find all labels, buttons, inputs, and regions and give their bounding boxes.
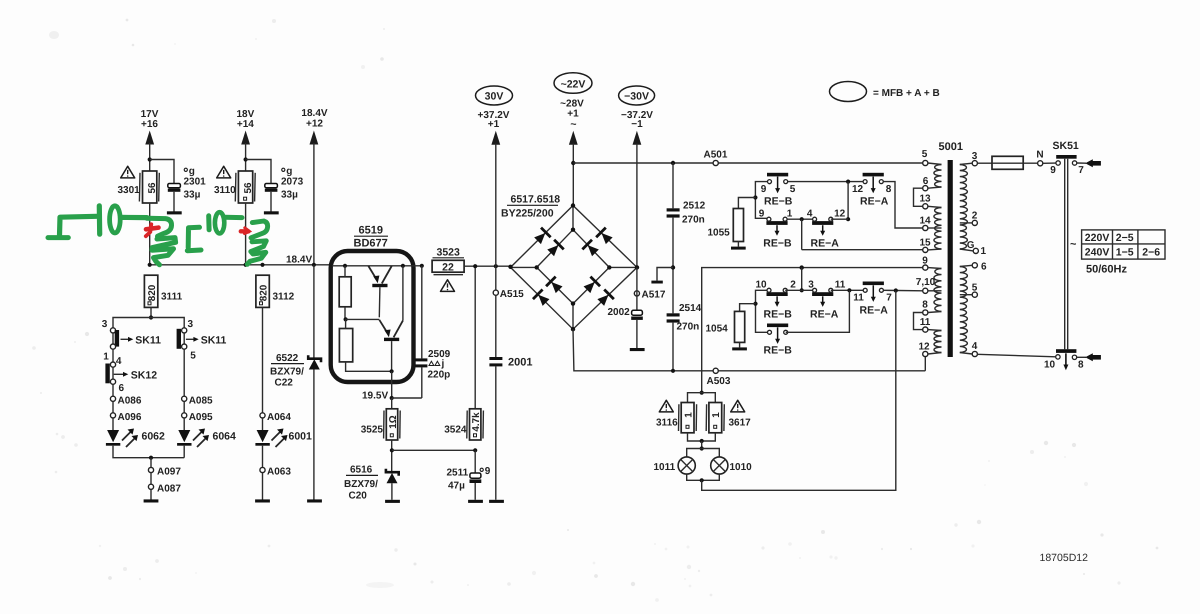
- link outer-inner top: [572, 206, 574, 230]
- plug arrow upper: [1085, 159, 1093, 167]
- legend MFB bubble: [830, 82, 867, 102]
- svg-text:C22: C22: [275, 378, 294, 389]
- arrow 18.4V: [310, 131, 319, 145]
- svg-text:1Ω: 1Ω: [388, 415, 399, 428]
- wire RE-A11 to junction: [831, 289, 865, 291]
- wire 3111 to fork: [150, 307, 152, 317]
- wire RE-B2 to RE-A3: [785, 289, 814, 291]
- wire resistor 3110 to bus: [245, 203, 247, 265]
- pin 3: [972, 161, 977, 166]
- svg-text:14: 14: [919, 216, 931, 227]
- green middle wire: [225, 215, 243, 220]
- vertical rail2 to lower contacts: [801, 268, 803, 291]
- green middle plate: [206, 216, 211, 230]
- node A086: [110, 396, 115, 401]
- svg-text:18705D12: 18705D12: [1040, 552, 1089, 564]
- ground under 2073: [264, 211, 279, 214]
- svg-text:9: 9: [485, 466, 491, 477]
- terminal 3 right: [182, 328, 187, 333]
- svg-text:11: 11: [920, 317, 931, 328]
- svg-text:2073: 2073: [281, 176, 304, 187]
- wire A515 down: [495, 266, 497, 290]
- ground under A063: [255, 499, 270, 502]
- junction merge: [149, 456, 153, 460]
- svg-text:12: 12: [918, 342, 930, 353]
- svg-text:2509: 2509: [428, 349, 451, 360]
- wire pin4 to contact 10: [977, 354, 1055, 357]
- capacitor 2001: [489, 357, 502, 360]
- node A097: [148, 467, 153, 472]
- resistor 3112 820: [256, 275, 269, 307]
- wire zener 6522 to ground: [313, 370, 315, 500]
- svg-text:3523: 3523: [437, 247, 461, 259]
- svg-text:−30V: −30V: [624, 91, 649, 103]
- wire A096 to LED 6062: [112, 418, 114, 430]
- green wire to node: [121, 215, 148, 220]
- svg-text:3: 3: [102, 319, 108, 330]
- svg-text:2511: 2511: [447, 468, 469, 479]
- svg-text:56: 56: [147, 182, 158, 193]
- svg-text:+1: +1: [488, 119, 500, 130]
- svg-text:A517: A517: [642, 289, 666, 300]
- transistor Q2: [401, 264, 405, 268]
- wire lamps return loop: [702, 291, 896, 491]
- primary winding 9-8: [934, 269, 942, 312]
- wire pin3 to fuse: [977, 162, 992, 164]
- svg-text:RE−A: RE−A: [860, 196, 889, 208]
- capacitor 2509 branch: [420, 264, 424, 268]
- wire fork left arm: [113, 318, 151, 328]
- resistor R2 internal: [339, 329, 352, 362]
- svg-text:A085: A085: [189, 395, 213, 406]
- scan speckles: [394, 548, 397, 551]
- link pin6-pin13: [914, 188, 923, 206]
- green right 3-shape: [247, 241, 266, 264]
- svg-text:~: ~: [1070, 239, 1077, 251]
- svg-text:N: N: [1036, 150, 1043, 161]
- svg-text:A087: A087: [157, 483, 181, 494]
- label og 2301 33u: [184, 168, 187, 171]
- svg-text:6522: 6522: [276, 353, 299, 364]
- svg-text:2: 2: [972, 211, 978, 222]
- ground under A087: [144, 499, 159, 502]
- arrow 18V: [241, 131, 250, 145]
- LED 6062: [107, 430, 119, 442]
- svg-text:240V: 240V: [1085, 247, 1110, 259]
- pin 8: [923, 310, 928, 315]
- switch SK12: [105, 364, 109, 384]
- capacitor 2073 electrolytic: [265, 184, 278, 188]
- svg-text:50/60Hz: 50/60Hz: [1086, 264, 1127, 276]
- diode D8 outer bottom-right: [596, 288, 615, 307]
- lamp 1010: [702, 449, 720, 458]
- switch SK11 right: [177, 329, 181, 349]
- wire 2512 to mid junction: [672, 218, 674, 314]
- svg-text:RE−B: RE−B: [764, 309, 793, 321]
- bridge inner diamond: [537, 230, 610, 304]
- svg-text:RE−A: RE−A: [810, 309, 839, 321]
- wire 6 to A086: [112, 384, 114, 396]
- svg-text:+16: +16: [141, 119, 158, 130]
- svg-text:A503: A503: [707, 376, 731, 387]
- ground under 2511: [468, 500, 483, 503]
- warning triangle 3110: [217, 166, 231, 178]
- svg-text:9: 9: [922, 256, 928, 267]
- node A064: [260, 413, 265, 418]
- resistor 3116: [681, 403, 694, 433]
- svg-text:820: 820: [147, 284, 158, 301]
- zener diode 6516: [386, 469, 399, 476]
- svg-text:4.7k: 4.7k: [471, 412, 482, 432]
- svg-text:4: 4: [807, 209, 813, 220]
- wire 3523 to bridge: [464, 265, 510, 267]
- svg-text:8: 8: [886, 184, 892, 195]
- svg-text:270n: 270n: [677, 322, 700, 333]
- node A096: [110, 413, 115, 418]
- svg-text:2512: 2512: [683, 201, 706, 212]
- svg-text:3617: 3617: [729, 418, 752, 429]
- svg-text:SK51: SK51: [1053, 140, 1079, 152]
- wire 3112 to A064: [262, 307, 264, 412]
- junction R1 top: [343, 264, 347, 268]
- wire 2512 line upper: [672, 163, 674, 208]
- svg-text:9: 9: [759, 209, 765, 220]
- svg-text:8: 8: [922, 300, 928, 311]
- wire LED 6064 to merge: [183, 446, 185, 458]
- svg-text:5001: 5001: [939, 141, 963, 153]
- pin 15: [923, 247, 928, 252]
- terminal 1: [110, 344, 115, 349]
- svg-text:6: 6: [119, 383, 125, 394]
- wire A095 to LED 6064: [183, 418, 185, 430]
- green sketch left base bar: [48, 235, 68, 240]
- wire mid junction to Q2 base: [346, 318, 380, 320]
- svg-text:RE−B: RE−B: [764, 345, 793, 357]
- diode D2 inner top-left: [546, 239, 565, 258]
- ground under 2001: [489, 500, 504, 503]
- svg-text:2001: 2001: [508, 357, 532, 369]
- rail2: [702, 268, 923, 393]
- junction dot cap 2301 branch: [148, 157, 152, 161]
- SK51 contact 10: [1056, 355, 1060, 359]
- wire to capacitor 2073: [246, 160, 271, 184]
- wire R2 to emitter rail: [346, 362, 392, 371]
- green hook right: [147, 218, 172, 236]
- svg-text:A515: A515: [500, 289, 524, 300]
- svg-text:A063: A063: [267, 467, 291, 478]
- pin 11: [923, 327, 928, 332]
- svg-text:RE−A: RE−A: [860, 304, 889, 316]
- link outer-inner bottom: [572, 304, 574, 330]
- pin 14: [923, 225, 928, 230]
- svg-text:12: 12: [852, 184, 864, 195]
- vertical link mid: [847, 182, 849, 220]
- svg-text:1: 1: [787, 209, 793, 220]
- wire A087 to ground: [150, 489, 152, 499]
- pin 4 secondary: [972, 351, 977, 356]
- wire merge down: [150, 458, 152, 468]
- terminal 5: [182, 344, 187, 349]
- svg-text:18.4V: 18.4V: [301, 108, 327, 119]
- wire fork right arm: [151, 318, 184, 328]
- svg-text:3112: 3112: [273, 292, 295, 303]
- terminal 3 left: [110, 328, 115, 333]
- wire RE-B1 to RE-A4: [787, 218, 815, 220]
- wire junction to 3524 bottom: [392, 449, 475, 451]
- resistor 3110: [238, 171, 252, 203]
- resistor 3111 820: [144, 275, 157, 307]
- svg-text:270n: 270n: [682, 215, 705, 226]
- resistor 3301: [143, 171, 157, 203]
- svg-text:BD677: BD677: [354, 238, 388, 250]
- red mark left: [146, 228, 159, 230]
- resistor R1 internal: [339, 277, 351, 307]
- svg-text:A086: A086: [118, 395, 142, 406]
- svg-text:A064: A064: [267, 412, 291, 423]
- wire RE-A8 to pin14: [883, 182, 922, 228]
- svg-text:11: 11: [853, 293, 864, 304]
- wire A086 to A096: [112, 401, 114, 412]
- green right hook: [251, 221, 268, 238]
- svg-text:6: 6: [981, 261, 987, 272]
- svg-text:7,10: 7,10: [916, 277, 936, 288]
- svg-text:2−5: 2−5: [1116, 232, 1134, 244]
- svg-text:3: 3: [972, 151, 978, 162]
- SK51 actuator: [1064, 159, 1066, 350]
- svg-text:SK11: SK11: [201, 334, 227, 346]
- svg-text:30V: 30V: [485, 91, 504, 103]
- svg-text:1: 1: [684, 412, 695, 418]
- svg-text:33µ: 33µ: [281, 190, 298, 201]
- node A087: [148, 484, 153, 489]
- pin 6 secondary: [972, 263, 977, 268]
- terminal 6: [110, 379, 115, 384]
- svg-text:19.5V: 19.5V: [362, 391, 388, 402]
- svg-text:1011: 1011: [654, 462, 676, 473]
- svg-text:~: ~: [570, 119, 576, 131]
- bubble ~22V: [554, 73, 592, 94]
- warning triangle under 3523: [441, 280, 455, 292]
- green oval: [110, 206, 121, 233]
- SK51 contact 8: [1072, 355, 1076, 359]
- svg-text:+12: +12: [306, 119, 323, 130]
- svg-text:9: 9: [1050, 165, 1056, 176]
- svg-text:3116: 3116: [656, 418, 678, 429]
- relay contact RE-A lower row1: [812, 288, 833, 307]
- svg-text:56: 56: [243, 182, 254, 193]
- rail1 mains: [573, 162, 922, 164]
- svg-text:SK12: SK12: [131, 369, 157, 381]
- svg-text:2: 2: [790, 280, 796, 291]
- pin 6: [923, 186, 928, 191]
- svg-text:5: 5: [790, 184, 796, 195]
- primary winding 5-6: [934, 165, 942, 188]
- pin 12: [923, 351, 928, 356]
- svg-text:2301: 2301: [184, 176, 207, 187]
- junction rail1 / 2512 line: [671, 161, 675, 165]
- resistor 1055: [738, 198, 755, 209]
- svg-text:1−5: 1−5: [1116, 247, 1134, 259]
- wire A064 to LED 6001: [262, 418, 264, 430]
- link outer-inner left: [511, 266, 537, 268]
- diode D5 inner bottom-left: [545, 276, 564, 295]
- wire bridge bottom to A503 rail: [573, 329, 925, 371]
- relay contact RE-A upper: [863, 173, 884, 193]
- wire N to SK51: [1043, 162, 1056, 164]
- svg-text:22: 22: [442, 261, 454, 273]
- svg-text:5: 5: [972, 283, 978, 294]
- SK51 contact 9: [1056, 161, 1060, 165]
- module outline 6519: [331, 251, 414, 382]
- wire resistor 3301 to bus: [149, 203, 151, 265]
- label og 2073 33u: [282, 168, 285, 171]
- resistor 3617: [709, 403, 722, 433]
- capacitor 2301 electrolytic: [168, 184, 181, 188]
- svg-text:RE−B: RE−B: [763, 238, 792, 250]
- arrow -37.2V: [633, 131, 642, 145]
- wire A085 to A095: [183, 401, 185, 412]
- wire RE-B lower-left loop: [756, 288, 770, 333]
- wire bus to zener 6522: [313, 265, 315, 358]
- svg-text:6: 6: [923, 176, 929, 187]
- svg-text:C20: C20: [349, 491, 368, 502]
- svg-text:1: 1: [981, 246, 987, 257]
- primary winding 13-15: [934, 208, 942, 250]
- pin 5 secondary: [972, 292, 977, 297]
- junction dot cap 2073 branch: [244, 157, 248, 161]
- zener diode 6522: [308, 355, 321, 362]
- node A095: [182, 413, 187, 418]
- arrow +37.2V: [491, 131, 500, 145]
- diode D3 outer top-right: [595, 227, 614, 246]
- svg-text:3111: 3111: [161, 292, 183, 303]
- svg-text:12: 12: [834, 209, 846, 220]
- bubble -30V: [619, 86, 655, 105]
- svg-text:33µ: 33µ: [184, 190, 201, 201]
- diode D4 inner top-right: [581, 239, 600, 258]
- diode D1 outer top-left: [533, 227, 552, 246]
- svg-text:6516: 6516: [350, 465, 373, 476]
- svg-text:A501: A501: [704, 150, 728, 161]
- svg-text:BY225/200: BY225/200: [501, 208, 554, 220]
- terminal N: [1038, 161, 1043, 166]
- junction dots on bus: [148, 263, 152, 267]
- svg-text:6519: 6519: [359, 225, 383, 237]
- warning triangle 3301: [121, 166, 135, 178]
- wire 18.4V arrow to bus: [313, 143, 315, 265]
- relay contact RE-B lower row2: [767, 324, 788, 344]
- svg-text:−1: −1: [631, 119, 643, 130]
- svg-text:18.4V: 18.4V: [286, 255, 312, 266]
- stub to mini ground: [657, 268, 673, 281]
- pin 9: [923, 265, 928, 270]
- wire R1 to mid junction: [344, 307, 346, 320]
- ground under 6522: [307, 499, 322, 502]
- junction 1054 tap: [753, 302, 757, 306]
- green sketch middle L: [188, 227, 199, 247]
- diode D6 outer bottom-left: [532, 288, 551, 307]
- secondary winding 3-1: [960, 165, 968, 250]
- fuse: [992, 156, 1023, 169]
- wire -37V line below bridge / node A517: [634, 291, 639, 296]
- wire A063 to ground: [262, 473, 264, 500]
- resistor 3524: [474, 266, 476, 409]
- svg-text:7: 7: [886, 293, 892, 304]
- press arrow: [1065, 353, 1067, 365]
- svg-text:220p: 220p: [428, 370, 451, 381]
- svg-text:1055: 1055: [708, 228, 731, 239]
- resistor 1054: [740, 304, 756, 312]
- wire 2514 to A503 rail: [672, 323, 674, 371]
- LED 6064: [178, 430, 190, 442]
- core: [948, 160, 953, 357]
- pin 1 with G: [973, 248, 978, 253]
- svg-text:10: 10: [755, 280, 767, 291]
- svg-text:3110: 3110: [214, 185, 236, 196]
- bubble 30V: [476, 86, 513, 105]
- svg-text:= MFB + A + B: = MFB + A + B: [873, 88, 940, 99]
- switch SK51 pole2 bar: [1056, 349, 1076, 353]
- svg-text:3524: 3524: [444, 425, 467, 436]
- node A085: [182, 396, 187, 401]
- capacitor 2512: [667, 208, 680, 211]
- SK51 contact 7: [1072, 161, 1076, 165]
- wire 17V arrow to resistor: [149, 143, 151, 171]
- plug arrow lower: [1085, 353, 1093, 361]
- svg-text:13: 13: [919, 194, 931, 205]
- svg-text:7: 7: [1078, 165, 1084, 176]
- arrow 17V: [145, 131, 154, 145]
- green plate stroke: [97, 206, 103, 234]
- wire LED 6062 to merge: [113, 446, 184, 458]
- svg-text:~22V: ~22V: [561, 79, 586, 91]
- relay contact RE-A mid: [812, 217, 833, 236]
- svg-text:1010: 1010: [730, 462, 753, 473]
- ground under 2301: [167, 211, 182, 214]
- warning triangle 3617: [731, 400, 745, 412]
- green sketch left L stroke: [60, 216, 97, 235]
- svg-text:3: 3: [808, 280, 814, 291]
- capacitor 2514: [667, 313, 680, 316]
- relay contact RE-B lower row1: [767, 288, 788, 307]
- wire resistors merge: [688, 433, 716, 441]
- svg-text:RE−B: RE−B: [764, 196, 793, 208]
- terminal 4: [110, 362, 115, 367]
- svg-text:1: 1: [711, 412, 722, 418]
- svg-text:BZX79/: BZX79/: [344, 479, 378, 490]
- svg-text:3301: 3301: [118, 185, 141, 196]
- svg-text:8: 8: [1078, 360, 1084, 371]
- wire contact7 to plug: [1077, 162, 1086, 164]
- relay contact RE-B upper: [767, 173, 788, 193]
- svg-text:2514: 2514: [679, 303, 702, 314]
- wire 1 to 4: [112, 349, 114, 362]
- lamp 1011: [687, 449, 702, 458]
- wire 5 to A085: [183, 349, 185, 396]
- junction 1055 tap: [753, 195, 757, 199]
- primary winding 11-12: [934, 331, 941, 353]
- pin 7,10: [923, 288, 928, 293]
- svg-text:A097: A097: [157, 467, 181, 478]
- svg-text:G: G: [967, 240, 975, 251]
- wire A097 to A087: [150, 473, 152, 485]
- corner dots: [508, 265, 512, 269]
- svg-text:10: 10: [1044, 360, 1056, 371]
- svg-text:3525: 3525: [361, 425, 384, 436]
- svg-text:5: 5: [922, 149, 928, 160]
- secondary winding 6-4: [960, 267, 968, 353]
- warning triangle 3116: [659, 400, 673, 412]
